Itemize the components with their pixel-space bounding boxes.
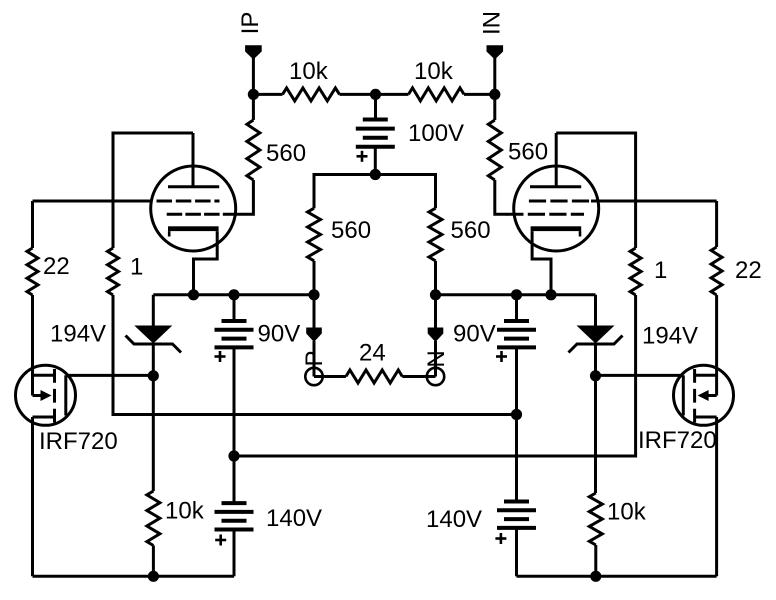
wire top rail left (253, 93, 282, 96)
wire IP to 560 (252, 94, 255, 120)
svg-text:560: 560 (266, 140, 306, 167)
svg-text:N: N (423, 350, 450, 367)
wire left grid column corner (31, 201, 34, 248)
wire grid1 right (591, 200, 717, 203)
resistor 560 (under IP) (247, 120, 260, 180)
wire gate right (596, 374, 684, 377)
battery 140V (left) (215, 456, 254, 576)
svg-text:10k: 10k (414, 58, 454, 85)
zener diode 194V (left) (126, 295, 182, 491)
wire 560L to grid (225, 180, 253, 214)
node battery right top (511, 289, 522, 300)
wire 560R to grid (495, 180, 507, 214)
resistor 22 (right) (711, 247, 722, 295)
wire bottom rail right (517, 575, 717, 578)
resistor 560 (middle right) (429, 208, 442, 261)
node bottom rail right (590, 571, 601, 582)
wire cross lower (left battery to right 1) (234, 295, 636, 456)
svg-text:194V: 194V (50, 321, 106, 348)
node cross lower (228, 450, 239, 461)
node gate left (148, 370, 159, 381)
svg-text:IRF720: IRF720 (638, 427, 717, 454)
svg-text:140V: 140V (426, 506, 482, 533)
resistor 1 (right) (630, 248, 641, 295)
wire anode loop left (113, 133, 193, 248)
wire gate left (66, 374, 154, 377)
node cathode left (188, 289, 199, 300)
mosfet IRF720 (right) (674, 295, 734, 576)
wire bottom rail left (33, 575, 235, 578)
wire mid rail (314, 175, 436, 209)
terminal N (423, 295, 450, 385)
svg-text:P: P (301, 350, 328, 366)
wire 560MR bottom (434, 261, 437, 295)
node IN (489, 89, 500, 100)
svg-text:1: 1 (654, 257, 667, 284)
terminal IP (237, 12, 264, 60)
svg-text:24: 24 (359, 340, 386, 367)
svg-text:10k: 10k (289, 58, 329, 85)
node battery left top (228, 289, 239, 300)
tube V2 (right) (506, 133, 598, 295)
node top centre (370, 89, 381, 100)
resistor 560 (middle left) (308, 208, 321, 261)
node cross upper (511, 409, 522, 420)
resistor 24 (346, 370, 402, 383)
node N column top (430, 289, 441, 300)
svg-text:560: 560 (451, 217, 491, 244)
wire cross upper (left 1 to right battery) (113, 295, 517, 415)
svg-text:560: 560 (331, 217, 371, 244)
node cathode right (545, 289, 556, 300)
resistor 22 (left) (27, 248, 38, 295)
resistor 10k (left top) (283, 88, 340, 101)
battery 90V (left) (215, 295, 254, 456)
terminal IN (478, 11, 505, 60)
node battery bottom (370, 169, 381, 180)
zener diode 194V (right) (569, 295, 623, 493)
svg-text:IRF720: IRF720 (39, 428, 118, 455)
wire P to 24 (314, 375, 346, 378)
wire top rail right (464, 93, 495, 96)
node bottom rail left (148, 571, 159, 582)
resistor 560 (under IN) (488, 120, 501, 180)
tube V1 (left) (151, 133, 236, 295)
svg-text:22: 22 (735, 257, 762, 284)
wire grid1 left (33, 200, 152, 203)
svg-text:22: 22 (43, 253, 70, 280)
mosfet IRF720 (left) (16, 295, 76, 576)
svg-text:90V: 90V (453, 321, 496, 348)
battery 100V (356, 94, 395, 174)
svg-text:100V: 100V (408, 120, 464, 147)
wire anode loop right (556, 133, 635, 248)
terminal P (301, 295, 328, 385)
svg-text:560: 560 (508, 139, 548, 166)
svg-text:194V: 194V (642, 323, 698, 350)
node IP (248, 89, 259, 100)
wire node row right (436, 293, 596, 296)
battery 140V (right) (495, 415, 536, 577)
resistor 10k (right top) (409, 88, 465, 101)
svg-text:90V: 90V (258, 321, 301, 348)
svg-text:140V: 140V (266, 505, 322, 532)
wire IN to 560 (493, 94, 496, 120)
svg-text:10k: 10k (607, 499, 647, 526)
resistor 10k (bottom right) (589, 493, 602, 545)
wire IN lead (493, 58, 496, 94)
node gate right (590, 370, 601, 381)
wire node row left (153, 293, 314, 296)
resistor 1 (left) (108, 248, 119, 295)
resistor 10k (bottom left) (147, 491, 160, 546)
svg-text:10k: 10k (165, 498, 205, 525)
battery 90V (right) (496, 295, 536, 415)
svg-text:1: 1 (130, 254, 143, 281)
wire top rail middle (340, 93, 409, 96)
wire right grid column corner (715, 201, 718, 247)
svg-text:IN: IN (478, 11, 505, 35)
wire 24 to N (402, 375, 435, 378)
wire IP lead (252, 58, 255, 94)
node P column top (308, 289, 319, 300)
wire 10kBR bottom (594, 545, 597, 576)
svg-text:IP: IP (237, 12, 264, 35)
wire 560ML bottom (313, 261, 316, 295)
wire 10kBL bottom (152, 546, 155, 577)
